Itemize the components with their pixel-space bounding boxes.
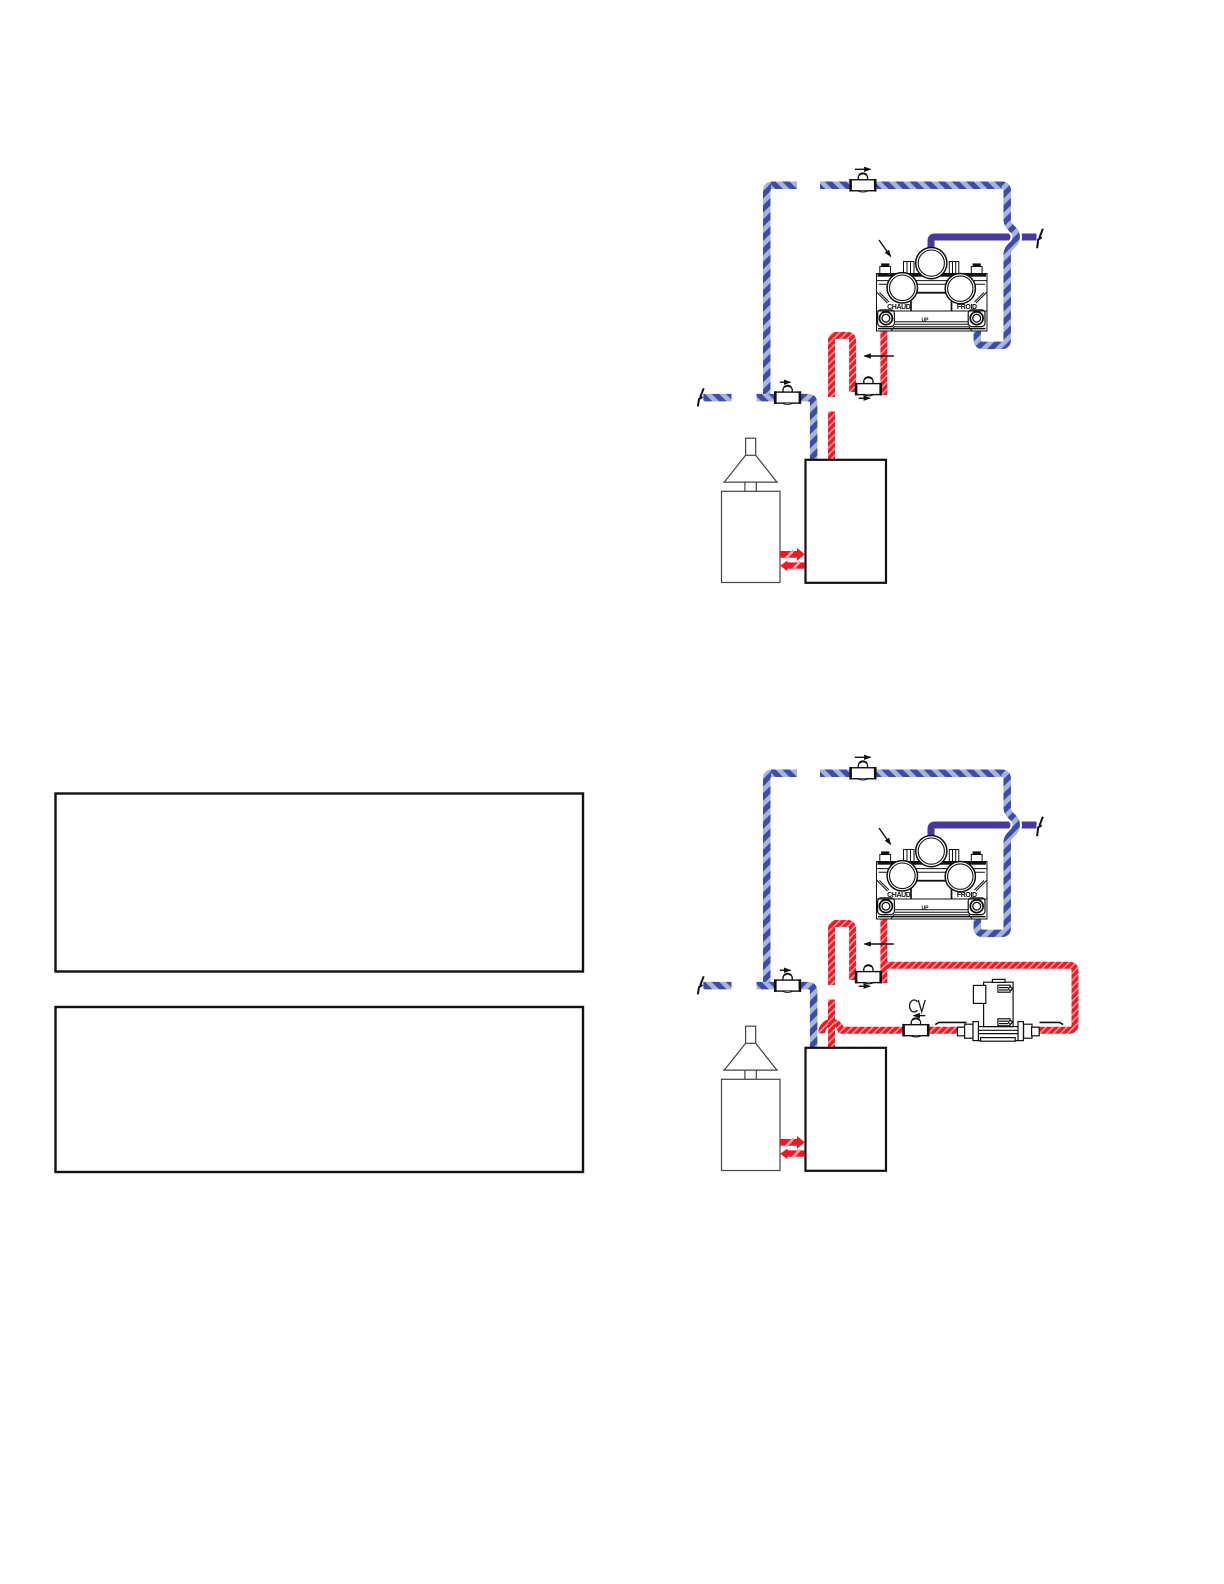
valve V3 on red trap [855, 376, 882, 395]
boiler box [806, 460, 887, 583]
break symbol: purple pipe right end [1037, 229, 1043, 249]
pump volute [978, 1027, 1018, 1041]
unit center plate [911, 293, 952, 312]
unit center beam [914, 292, 949, 294]
unit right mount plate [968, 310, 985, 327]
tank draft hood cone [723, 455, 778, 482]
arrow: flow direction at trap (points left) [864, 355, 893, 357]
unit left port fitting [904, 262, 915, 274]
pump union right [1024, 1024, 1032, 1038]
valve CV (check valve) on return [902, 1017, 929, 1036]
wire: purple tempered outlet pipe [931, 237, 1037, 250]
arrow: callout pointing to unit [879, 240, 891, 256]
wire: blue top horizontal segment 1 [771, 182, 797, 190]
unit right circle [945, 274, 975, 304]
wire: blue bottom horizontal segment C and elbow down to boiler [800, 398, 814, 460]
unit lower bracket [877, 311, 988, 331]
wire: blue bottom horizontal segment A [703, 394, 731, 402]
tank neck [745, 482, 756, 491]
label CV [910, 1000, 926, 1012]
pipe hop: white casing where blue crosses purple [1007, 219, 1016, 255]
pump union left [957, 1027, 965, 1036]
wire: blue right vertical with hop over purple, bottom elbow to unit [977, 185, 1016, 345]
unit right bolt [971, 267, 982, 274]
valve V2 on blue bottom pipe [774, 385, 801, 404]
red transfer arrow (to tank) [780, 560, 804, 571]
svg-text:UP: UP [922, 318, 930, 324]
arrow: flow direction below valve V3 [859, 397, 870, 399]
red transfer arrow (to boiler) [780, 548, 805, 561]
pump nipple line right [1040, 1022, 1064, 1024]
note box 1 [56, 794, 584, 972]
unit right port fitting [949, 262, 959, 274]
unit left bolt [880, 267, 891, 274]
note box 2 [56, 1007, 584, 1172]
arrow: flow direction above valve V2 [780, 381, 791, 383]
wire: red hot outlet from unit (right leg of trap) [880, 330, 887, 395]
wire: red trap inner leg, cap and left leg [832, 335, 853, 397]
wire: red drop to boiler after break gap [828, 412, 835, 460]
unit side braces [877, 293, 889, 304]
pump junction box [973, 985, 985, 1003]
pump terminal slots bottom [998, 1019, 1010, 1026]
wire: blue top horizontal segment 3 (valve to right elbow) [875, 182, 1002, 190]
unit left circle [887, 273, 917, 303]
unit top circle [916, 248, 947, 279]
wire: blue bottom horizontal segment B through tee [757, 394, 776, 402]
DHW module unit drawing [877, 248, 988, 332]
wire: blue top horizontal segment 2 (after break gap) [820, 182, 851, 190]
valve V1 on blue top pipe [849, 173, 876, 192]
water heater tank [722, 491, 781, 582]
pump motor body [984, 982, 1014, 1026]
arrow: flow direction above CV (points left) [914, 1015, 926, 1017]
pipe hop: red return arches over supply drop [822, 1022, 842, 1033]
wire: blue left vertical riser with top elbow [767, 185, 773, 397]
break symbol: blue cold main left end [698, 388, 704, 406]
circulator pump [935, 979, 1063, 1041]
arrow: flow direction above valve V1 [855, 168, 871, 170]
unit body [877, 274, 988, 312]
pump nipple line left [935, 1022, 966, 1024]
wire: red recirculation supply tee and right drop [841, 965, 1075, 1030]
tank flue chimney [746, 438, 756, 455]
pump terminal slots top [998, 985, 1010, 992]
unit left mount plate [878, 310, 895, 327]
